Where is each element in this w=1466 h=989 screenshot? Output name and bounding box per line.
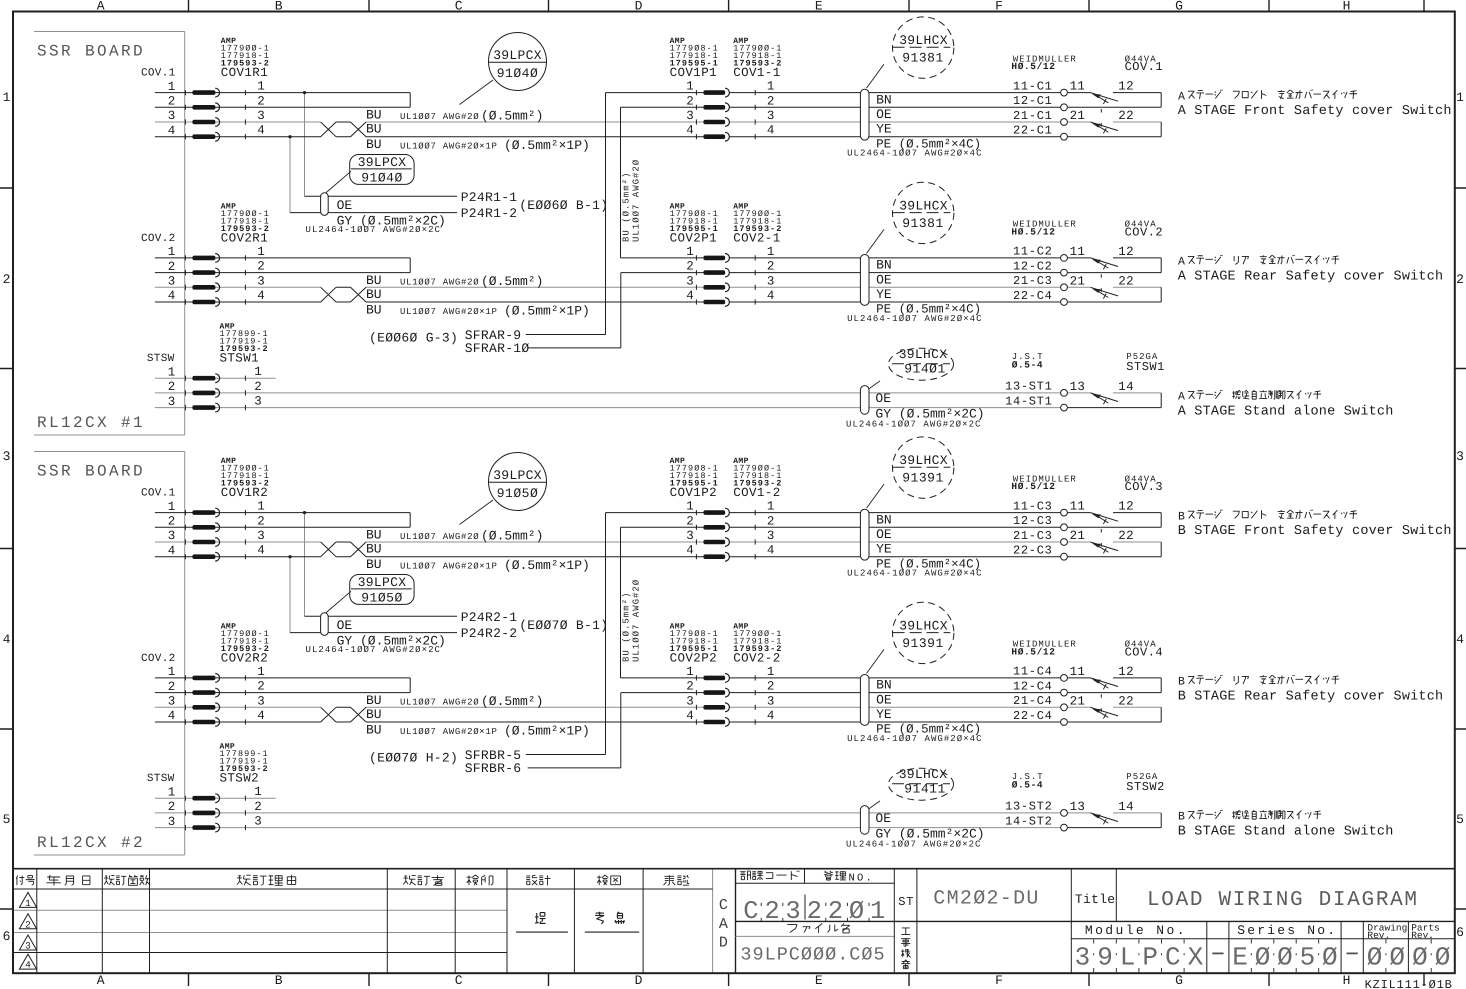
- svg-text:3: 3: [767, 274, 775, 288]
- svg-text:14-ST2: 14-ST2: [1005, 814, 1052, 828]
- svg-text:–: –: [1210, 938, 1226, 968]
- svg-text:11: 11: [1070, 500, 1086, 514]
- svg-text:HØ.5/12: HØ.5/12: [1011, 227, 1055, 238]
- svg-text:4: 4: [767, 289, 775, 303]
- svg-text:12-C4: 12-C4: [1013, 679, 1053, 693]
- svg-text:OE: OE: [337, 618, 353, 633]
- svg-text:3: 3: [168, 695, 176, 709]
- svg-text:COV2P2: COV2P2: [670, 651, 717, 665]
- svg-text:4: 4: [257, 709, 265, 723]
- svg-text:12: 12: [1118, 665, 1134, 679]
- svg-text:STSW: STSW: [147, 773, 175, 785]
- svg-text:BU: BU: [366, 707, 382, 722]
- svg-text:2: 2: [254, 380, 262, 394]
- svg-text:1: 1: [767, 245, 775, 259]
- svg-text:(Ø.5mm²): (Ø.5mm²): [481, 274, 543, 289]
- svg-text:COV2R1: COV2R1: [221, 231, 268, 245]
- svg-text:Rev.: Rev.: [1367, 930, 1390, 941]
- svg-text:39LPCX: 39LPCX: [493, 468, 542, 483]
- svg-text:2: 2: [767, 514, 775, 528]
- svg-text:91Ø4Ø: 91Ø4Ø: [497, 66, 539, 81]
- svg-text:2: 2: [686, 514, 694, 528]
- svg-text:BU: BU: [366, 557, 382, 572]
- svg-text:COV2P1: COV2P1: [670, 231, 717, 245]
- svg-text:2: 2: [807, 897, 822, 926]
- svg-text:BU: BU: [366, 303, 382, 318]
- svg-text:4: 4: [3, 632, 11, 647]
- svg-text:22-C4: 22-C4: [1013, 289, 1053, 303]
- svg-text:14: 14: [1118, 800, 1134, 814]
- svg-text:2: 2: [1456, 272, 1464, 287]
- svg-text:21: 21: [1070, 109, 1086, 123]
- svg-text:1: 1: [686, 80, 694, 94]
- svg-text:1: 1: [1456, 90, 1464, 105]
- svg-text:D: D: [635, 973, 643, 988]
- svg-text:COV.1: COV.1: [141, 488, 176, 500]
- svg-text:UL2464-1ØØ7 AWG#2Ø×4C: UL2464-1ØØ7 AWG#2Ø×4C: [847, 734, 982, 744]
- svg-text:D: D: [719, 934, 728, 951]
- svg-text:UL1ØØ7 AWG#2Ø×1P: UL1ØØ7 AWG#2Ø×1P: [400, 142, 498, 152]
- svg-text:SSR BOARD: SSR BOARD: [37, 463, 145, 481]
- svg-text:4: 4: [686, 289, 694, 303]
- svg-text:(Ø.5mm²×1P): (Ø.5mm²×1P): [504, 724, 590, 739]
- svg-text:2: 2: [764, 897, 779, 926]
- svg-text:1: 1: [767, 80, 775, 94]
- svg-text:12: 12: [1118, 500, 1134, 514]
- svg-text:22: 22: [1118, 529, 1134, 543]
- svg-text:A: A: [719, 916, 728, 933]
- svg-text:2: 2: [257, 94, 265, 108]
- svg-text:A STAGE Front Safety cover Swi: A STAGE Front Safety cover Switch: [1178, 104, 1452, 119]
- svg-text:SSR BOARD: SSR BOARD: [37, 43, 145, 61]
- svg-text:3: 3: [1075, 943, 1091, 973]
- svg-text:A: A: [1178, 391, 1185, 404]
- svg-text:21: 21: [1070, 529, 1086, 543]
- svg-text:STSW2: STSW2: [220, 772, 260, 786]
- svg-text:(Ø.5mm²×1P): (Ø.5mm²×1P): [504, 558, 590, 573]
- svg-text:C: C: [743, 897, 758, 926]
- svg-text:21: 21: [1070, 694, 1086, 708]
- svg-text:BN: BN: [876, 258, 892, 273]
- svg-text:1: 1: [254, 365, 262, 379]
- svg-text:UL2464-1ØØ7 AWG#2Ø×4C: UL2464-1ØØ7 AWG#2Ø×4C: [847, 314, 982, 324]
- svg-text:C: C: [455, 0, 463, 14]
- svg-text:1: 1: [168, 665, 176, 679]
- svg-text:2: 2: [767, 260, 775, 274]
- svg-text:OE: OE: [337, 198, 353, 213]
- svg-text:KZIL111-Ø1B: KZIL111-Ø1B: [1365, 978, 1453, 989]
- svg-text:1: 1: [686, 500, 694, 514]
- svg-text:BN: BN: [876, 92, 892, 107]
- svg-text:11-C2: 11-C2: [1013, 245, 1053, 259]
- svg-text:STSW1: STSW1: [220, 352, 260, 366]
- svg-text:HØ.5/12: HØ.5/12: [1011, 61, 1055, 72]
- svg-text:BU: BU: [366, 137, 382, 152]
- svg-text:H: H: [1343, 0, 1351, 14]
- svg-text:91381: 91381: [902, 51, 944, 66]
- svg-text:1: 1: [254, 785, 262, 799]
- svg-text:91Ø5Ø: 91Ø5Ø: [497, 486, 539, 501]
- svg-text:C: C: [1165, 943, 1181, 973]
- svg-text:UL1ØØ7 AWG#2Ø×1P: UL1ØØ7 AWG#2Ø×1P: [400, 307, 498, 317]
- svg-text:2: 2: [767, 680, 775, 694]
- svg-text:A: A: [1178, 256, 1185, 269]
- svg-text:COV1R2: COV1R2: [221, 486, 268, 500]
- svg-text:13-ST2: 13-ST2: [1005, 800, 1052, 814]
- svg-text:2: 2: [257, 260, 265, 274]
- svg-text:3: 3: [168, 815, 176, 829]
- svg-text:3: 3: [257, 694, 265, 708]
- svg-text:Ø: Ø: [1255, 943, 1271, 973]
- svg-text:Ø: Ø: [1389, 943, 1405, 973]
- svg-text:11-C3: 11-C3: [1013, 499, 1053, 513]
- svg-text:BU: BU: [366, 122, 382, 137]
- svg-text:11: 11: [1070, 80, 1086, 94]
- svg-text:LOAD WIRING DIAGRAM: LOAD WIRING DIAGRAM: [1147, 889, 1419, 912]
- svg-text:13-ST1: 13-ST1: [1005, 380, 1052, 394]
- svg-text:(Ø.5mm²×1P): (Ø.5mm²×1P): [504, 138, 590, 153]
- svg-text:3: 3: [254, 395, 262, 409]
- svg-text:11: 11: [1070, 245, 1086, 259]
- svg-text:9: 9: [1097, 943, 1113, 973]
- svg-text:B STAGE Rear Safety cover Swit: B STAGE Rear Safety cover Switch: [1178, 689, 1444, 704]
- svg-text:HØ.5/12: HØ.5/12: [1011, 481, 1055, 492]
- svg-text:22-C4: 22-C4: [1013, 709, 1053, 723]
- svg-text:YE: YE: [876, 542, 892, 557]
- svg-text:2: 2: [767, 94, 775, 108]
- svg-text:1: 1: [168, 80, 176, 94]
- svg-text:22-C1: 22-C1: [1013, 124, 1053, 138]
- svg-text:STSW1: STSW1: [1126, 360, 1165, 374]
- svg-text:BN: BN: [876, 512, 892, 527]
- svg-text:12-C1: 12-C1: [1013, 94, 1053, 108]
- svg-text:YE: YE: [876, 287, 892, 302]
- svg-text:3: 3: [686, 274, 694, 288]
- svg-text:B: B: [275, 973, 283, 988]
- svg-text:39LHCX: 39LHCX: [899, 767, 948, 782]
- svg-text:COV.4: COV.4: [1125, 646, 1164, 660]
- svg-text:F: F: [995, 973, 1003, 988]
- svg-text:COV2-1: COV2-1: [733, 231, 780, 245]
- svg-text:P: P: [1142, 943, 1158, 973]
- svg-text:1: 1: [870, 897, 885, 926]
- svg-text:P24R2-1: P24R2-1: [461, 610, 518, 625]
- svg-text:BU: BU: [366, 693, 382, 708]
- svg-text:(Ø.5mm²): (Ø.5mm²): [481, 529, 543, 544]
- svg-text:1: 1: [257, 80, 265, 94]
- svg-text:39LHCX: 39LHCX: [899, 33, 948, 48]
- svg-text:UL2464-1ØØ7 AWG#2Ø×2C: UL2464-1ØØ7 AWG#2Ø×2C: [846, 419, 981, 429]
- svg-text:Ø: Ø: [1435, 943, 1451, 973]
- svg-text:2: 2: [828, 897, 843, 926]
- svg-text:11: 11: [1070, 665, 1086, 679]
- svg-text:6: 6: [1456, 925, 1464, 940]
- svg-text:4: 4: [168, 289, 176, 303]
- svg-text:(Ø.5mm²): (Ø.5mm²): [481, 694, 543, 709]
- svg-text:CM2Ø2-DU: CM2Ø2-DU: [933, 888, 1039, 911]
- svg-text:2: 2: [25, 919, 31, 930]
- svg-text:1: 1: [257, 245, 265, 259]
- svg-text:21-C1: 21-C1: [1013, 109, 1053, 123]
- svg-text:COV1R1: COV1R1: [221, 66, 268, 80]
- svg-text:21-C3: 21-C3: [1013, 529, 1053, 543]
- svg-text:3: 3: [257, 109, 265, 123]
- svg-text:UL2464-1ØØ7 AWG#2Ø×4C: UL2464-1ØØ7 AWG#2Ø×4C: [847, 569, 982, 579]
- svg-text:B: B: [1178, 811, 1185, 824]
- svg-text:14: 14: [1118, 380, 1134, 394]
- svg-text:Ø.5-4: Ø.5-4: [1012, 360, 1044, 371]
- svg-text:2: 2: [168, 515, 176, 529]
- svg-text:(EØØ7Ø H-2): (EØØ7Ø H-2): [369, 751, 458, 766]
- svg-text:3: 3: [168, 275, 176, 289]
- svg-text:5: 5: [3, 812, 11, 827]
- svg-text:1: 1: [686, 245, 694, 259]
- svg-text:UL1ØØ7 AWG#2Ø×1P: UL1ØØ7 AWG#2Ø×1P: [400, 727, 498, 737]
- svg-text:P24R1-2: P24R1-2: [461, 206, 518, 221]
- svg-text:OE: OE: [876, 272, 892, 287]
- svg-text:STSW2: STSW2: [1126, 780, 1165, 794]
- svg-text:3: 3: [767, 694, 775, 708]
- svg-text:UL1ØØ7 AWG#2Ø: UL1ØØ7 AWG#2Ø: [400, 277, 479, 287]
- svg-text:22-C3: 22-C3: [1013, 544, 1053, 558]
- svg-text:3: 3: [25, 941, 31, 952]
- svg-text:L: L: [1120, 943, 1136, 973]
- svg-text:BU (Ø.5mm²): BU (Ø.5mm²): [622, 172, 632, 242]
- svg-text:4: 4: [686, 124, 694, 138]
- svg-text:COV2-2: COV2-2: [733, 651, 780, 665]
- svg-text:UL2464-1ØØ7 AWG#2Ø×2C: UL2464-1ØØ7 AWG#2Ø×2C: [306, 645, 441, 655]
- svg-text:12-C3: 12-C3: [1013, 514, 1053, 528]
- svg-text:COV.1: COV.1: [1125, 60, 1164, 74]
- svg-text:A: A: [97, 973, 105, 988]
- svg-text:Ø: Ø: [1367, 943, 1383, 973]
- svg-text:1: 1: [257, 665, 265, 679]
- svg-text:3: 3: [257, 274, 265, 288]
- svg-text:12-C2: 12-C2: [1013, 259, 1053, 273]
- svg-text:UL1ØØ7 AWG#2Ø: UL1ØØ7 AWG#2Ø: [400, 697, 479, 707]
- svg-text:UL2464-1ØØ7 AWG#2Ø×4C: UL2464-1ØØ7 AWG#2Ø×4C: [847, 149, 982, 159]
- svg-text:4: 4: [257, 289, 265, 303]
- svg-text:39LHCX: 39LHCX: [899, 453, 948, 468]
- svg-text:2: 2: [257, 680, 265, 694]
- svg-text:RL12CX #2: RL12CX #2: [37, 834, 145, 852]
- svg-text:4: 4: [686, 709, 694, 723]
- svg-text:UL2464-1ØØ7 AWG#2Ø×2C: UL2464-1ØØ7 AWG#2Ø×2C: [306, 225, 441, 235]
- svg-text:2: 2: [168, 680, 176, 694]
- svg-text:12: 12: [1118, 245, 1134, 259]
- svg-text:914Ø1: 914Ø1: [904, 362, 946, 377]
- svg-text:91Ø4Ø: 91Ø4Ø: [361, 171, 403, 186]
- svg-text:1: 1: [686, 665, 694, 679]
- svg-text:A STAGE Rear Safety cover Swit: A STAGE Rear Safety cover Switch: [1178, 269, 1444, 284]
- svg-text:22: 22: [1118, 109, 1134, 123]
- svg-text:UL1ØØ7 AWG#2Ø: UL1ØØ7 AWG#2Ø: [632, 579, 642, 662]
- svg-text:22: 22: [1118, 274, 1134, 288]
- svg-text:(EØØ6Ø G-3): (EØØ6Ø G-3): [369, 331, 458, 346]
- svg-text:OE: OE: [875, 391, 891, 406]
- svg-text:Ø: Ø: [1277, 943, 1293, 973]
- svg-text:D: D: [635, 0, 643, 14]
- svg-text:BU: BU: [366, 528, 382, 543]
- svg-text:G: G: [1175, 0, 1183, 14]
- svg-text:RL12CX #1: RL12CX #1: [37, 414, 145, 432]
- svg-text:COV1-2: COV1-2: [733, 486, 780, 500]
- svg-text:OE: OE: [875, 811, 891, 826]
- svg-text:HØ.5/12: HØ.5/12: [1011, 647, 1055, 658]
- svg-text:39LPCX: 39LPCX: [358, 575, 407, 590]
- svg-text:COV.2: COV.2: [141, 233, 176, 245]
- svg-text:COV1-1: COV1-1: [733, 66, 780, 80]
- svg-text:4: 4: [767, 124, 775, 138]
- svg-text:P24R1-1: P24R1-1: [461, 190, 518, 205]
- svg-text:Ø: Ø: [849, 897, 864, 926]
- svg-text:2: 2: [168, 260, 176, 274]
- svg-text:B: B: [1178, 676, 1185, 689]
- svg-text:3: 3: [767, 109, 775, 123]
- svg-text:X: X: [1188, 943, 1204, 973]
- svg-text:B STAGE Front Safety cover Swi: B STAGE Front Safety cover Switch: [1178, 524, 1452, 539]
- svg-text:39LPCX: 39LPCX: [493, 48, 542, 63]
- svg-text:4: 4: [168, 544, 176, 558]
- svg-text:BU: BU: [366, 108, 382, 123]
- svg-text:UL1ØØ7 AWG#2Ø×1P: UL1ØØ7 AWG#2Ø×1P: [400, 562, 498, 572]
- svg-text:21-C3: 21-C3: [1013, 274, 1053, 288]
- svg-text:2: 2: [686, 680, 694, 694]
- svg-text:39LHCX: 39LHCX: [899, 198, 948, 213]
- svg-text:Module No.: Module No.: [1085, 923, 1187, 938]
- svg-text:P24R2-2: P24R2-2: [461, 626, 518, 641]
- svg-text:E: E: [815, 0, 823, 14]
- svg-text:11-C4: 11-C4: [1013, 665, 1053, 679]
- svg-text:COV1P2: COV1P2: [670, 486, 717, 500]
- svg-text:1: 1: [168, 500, 176, 514]
- svg-text:YE: YE: [876, 707, 892, 722]
- svg-text:UL2464-1ØØ7 AWG#2Ø×2C: UL2464-1ØØ7 AWG#2Ø×2C: [846, 839, 981, 849]
- svg-text:5: 5: [1456, 812, 1464, 827]
- svg-text:SFRAR-1Ø: SFRAR-1Ø: [465, 341, 530, 356]
- svg-text:B: B: [275, 0, 283, 14]
- svg-text:UL1ØØ7 AWG#2Ø: UL1ØØ7 AWG#2Ø: [632, 159, 642, 242]
- svg-text:BN: BN: [876, 678, 892, 693]
- svg-text:2: 2: [254, 800, 262, 814]
- svg-text:1: 1: [168, 245, 176, 259]
- svg-text:13: 13: [1070, 800, 1086, 814]
- svg-text:A STAGE Stand alone Switch: A STAGE Stand alone Switch: [1178, 404, 1394, 419]
- svg-text:1: 1: [767, 500, 775, 514]
- svg-text:4: 4: [25, 960, 31, 971]
- svg-text:3: 3: [168, 109, 176, 123]
- svg-text:91381: 91381: [902, 216, 944, 231]
- svg-text:3: 3: [168, 529, 176, 543]
- svg-text:2: 2: [168, 800, 176, 814]
- svg-text:Rev.: Rev.: [1411, 930, 1434, 941]
- svg-text:14-ST1: 14-ST1: [1005, 394, 1052, 408]
- svg-text:3: 3: [686, 694, 694, 708]
- svg-text:STSW: STSW: [147, 353, 175, 365]
- svg-text:COV.3: COV.3: [1125, 480, 1164, 494]
- svg-text:3: 3: [686, 109, 694, 123]
- svg-text:G: G: [1175, 973, 1183, 988]
- svg-text:(EØØ6Ø B-1): (EØØ6Ø B-1): [519, 198, 608, 213]
- svg-text:COV1P1: COV1P1: [670, 66, 717, 80]
- svg-text:2: 2: [3, 272, 11, 287]
- svg-text:13: 13: [1070, 380, 1086, 394]
- svg-text:BU (Ø.5mm²): BU (Ø.5mm²): [622, 592, 632, 662]
- svg-text:39LPCX: 39LPCX: [358, 155, 407, 170]
- svg-text:C: C: [455, 973, 463, 988]
- svg-text:B: B: [1178, 510, 1185, 523]
- svg-text:B STAGE Stand alone Switch: B STAGE Stand alone Switch: [1178, 824, 1394, 839]
- svg-text:2: 2: [686, 260, 694, 274]
- svg-text:ST: ST: [898, 895, 914, 909]
- svg-text:1: 1: [168, 365, 176, 379]
- svg-text:2: 2: [168, 380, 176, 394]
- svg-text:COV.2: COV.2: [1125, 226, 1164, 240]
- svg-text:3: 3: [3, 449, 11, 464]
- svg-text:39LHCX: 39LHCX: [899, 347, 948, 362]
- svg-text:1: 1: [257, 500, 265, 514]
- svg-text:4: 4: [257, 124, 265, 138]
- svg-text:91391: 91391: [902, 636, 944, 651]
- svg-text:OE: OE: [876, 692, 892, 707]
- svg-text:3: 3: [686, 529, 694, 543]
- svg-text:3: 3: [168, 395, 176, 409]
- svg-text:91Ø5Ø: 91Ø5Ø: [361, 591, 403, 606]
- svg-text:(EØØ7Ø B-1): (EØØ7Ø B-1): [519, 618, 608, 633]
- svg-text:2: 2: [257, 514, 265, 528]
- svg-text:BU: BU: [366, 287, 382, 302]
- svg-text:6: 6: [3, 929, 11, 944]
- svg-text:1: 1: [3, 90, 11, 105]
- svg-text:H: H: [1343, 973, 1351, 988]
- svg-text:Title: Title: [1075, 892, 1116, 907]
- svg-text:4: 4: [686, 544, 694, 558]
- svg-text:12: 12: [1118, 80, 1134, 94]
- svg-text:3: 3: [785, 897, 800, 926]
- svg-text:21-C4: 21-C4: [1013, 694, 1053, 708]
- svg-text:1: 1: [25, 898, 31, 909]
- svg-text:21: 21: [1070, 274, 1086, 288]
- svg-text:F: F: [995, 0, 1003, 14]
- svg-text:1: 1: [168, 785, 176, 799]
- svg-text:91391: 91391: [902, 471, 944, 486]
- svg-text:3: 3: [257, 529, 265, 543]
- svg-text:BU: BU: [366, 723, 382, 738]
- svg-text:11-C1: 11-C1: [1013, 79, 1053, 93]
- svg-text:UL1ØØ7 AWG#2Ø: UL1ØØ7 AWG#2Ø: [400, 112, 479, 122]
- svg-text:4: 4: [257, 544, 265, 558]
- svg-text:COV.1: COV.1: [141, 68, 176, 80]
- svg-text:Ø: Ø: [1412, 943, 1428, 973]
- svg-text:1: 1: [767, 665, 775, 679]
- svg-text:BU: BU: [366, 542, 382, 557]
- svg-text:3: 3: [1456, 449, 1464, 464]
- svg-text:(Ø.5mm²): (Ø.5mm²): [481, 109, 543, 124]
- svg-text:3: 3: [254, 815, 262, 829]
- svg-text:4: 4: [1456, 632, 1464, 647]
- svg-text:4: 4: [168, 709, 176, 723]
- svg-text:OE: OE: [876, 107, 892, 122]
- svg-text:YE: YE: [876, 122, 892, 137]
- svg-text:2: 2: [686, 94, 694, 108]
- svg-text:39LPCØØØ.CØ5: 39LPCØØØ.CØ5: [740, 945, 885, 966]
- svg-text:COV2R2: COV2R2: [221, 651, 268, 665]
- svg-text:C: C: [719, 897, 728, 914]
- svg-text:(Ø.5mm²×1P): (Ø.5mm²×1P): [504, 304, 590, 319]
- svg-text:4: 4: [168, 124, 176, 138]
- svg-text:E: E: [815, 973, 823, 988]
- svg-text:COV.2: COV.2: [141, 653, 176, 665]
